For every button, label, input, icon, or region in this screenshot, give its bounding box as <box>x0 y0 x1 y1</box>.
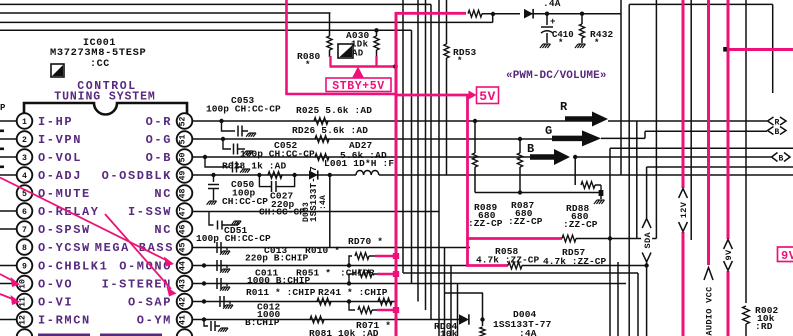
svg-text:L001 1D*H :F: L001 1D*H :F <box>324 158 394 169</box>
svg-text:R010 *: R010 * <box>305 245 340 256</box>
svg-text:O-R: O-R <box>146 115 172 129</box>
svg-text:9V: 9V <box>724 249 734 260</box>
IC pin 2 <box>17 131 33 147</box>
capacitor C012 inline <box>219 296 221 307</box>
pink vertical 683 (12V) <box>682 0 685 336</box>
svg-text:100p CH:CC-CP: 100p CH:CC-CP <box>206 104 281 115</box>
connector B <box>772 153 778 162</box>
R arrow <box>565 116 592 122</box>
svg-text:12V: 12V <box>679 201 689 218</box>
wire stub to pin 1 <box>0 120 17 122</box>
resistor R010 to pink bus <box>349 256 352 266</box>
9V callout box (cut) <box>778 247 793 262</box>
junction row43 <box>347 281 351 285</box>
svg-text:49: 49 <box>179 171 188 181</box>
IC pin 12 <box>17 312 33 328</box>
net label 12V <box>678 188 689 232</box>
wire D003 junction drop <box>329 175 331 248</box>
wire R058 right <box>522 265 647 267</box>
bus vertical d <box>425 0 427 310</box>
svg-text:AUDIO VCC: AUDIO VCC <box>705 286 715 335</box>
svg-text:O-MUTE: O-MUTE <box>38 187 91 201</box>
svg-text:*: * <box>558 38 564 48</box>
wire R to connector <box>608 120 767 122</box>
photocoupler A030 <box>338 44 353 58</box>
svg-text:O-B: O-B <box>146 151 172 165</box>
wire RD57 right <box>576 238 656 240</box>
connector B upper <box>768 127 774 135</box>
resistor R088 <box>581 182 595 189</box>
wire R087 drop <box>519 139 521 153</box>
ground C011 <box>221 266 227 269</box>
IC pin 5 <box>17 185 33 201</box>
svg-text:R: R <box>775 118 780 127</box>
diode D003 <box>309 170 318 179</box>
wire 5V row to diode <box>482 13 520 15</box>
5V callout box <box>469 91 477 100</box>
IC pin 8 <box>17 239 33 255</box>
wire stub to pin 2 <box>0 138 17 140</box>
resistor R087 <box>517 153 522 167</box>
wire from D004 up <box>482 293 484 320</box>
svg-text:10k: 10k <box>440 329 458 336</box>
svg-text:+: + <box>550 17 556 27</box>
wire stub to pin 3 <box>0 156 17 158</box>
svg-text:2: 2 <box>22 136 27 145</box>
capacitor C053 (to gnd) <box>222 121 236 131</box>
IC pin 4 <box>17 167 33 183</box>
svg-text:B: B <box>779 154 784 163</box>
right vertical 636 <box>636 121 638 239</box>
IC pin 43 <box>177 276 193 292</box>
svg-text:*: * <box>305 60 311 70</box>
pink annotation line to pin 44 <box>0 178 168 262</box>
pink row 48 to right <box>727 48 793 51</box>
pink row R058 <box>466 264 508 267</box>
svg-text:B: B <box>775 128 780 137</box>
svg-text:O-VI: O-VI <box>38 296 73 310</box>
wire bus line 4 <box>0 29 412 31</box>
wire stub to pin 4 <box>0 174 17 176</box>
svg-text:52: 52 <box>179 117 188 127</box>
pink pointer to STBY+5V <box>352 67 364 79</box>
row 273 wire <box>403 272 638 274</box>
ground after C051 <box>232 221 235 225</box>
pink main vertical bus <box>395 12 398 336</box>
svg-text:P: P <box>0 103 6 113</box>
svg-text:45: 45 <box>179 243 188 253</box>
junction on row 51 <box>221 137 225 141</box>
svg-text:8: 8 <box>22 244 27 253</box>
pink 5V drop <box>466 95 469 267</box>
wire row pin45 <box>192 247 470 249</box>
svg-text:B:CHIP: B:CHIP <box>245 317 280 328</box>
svg-text:9V: 9V <box>781 249 793 263</box>
net label 9V <box>723 239 734 271</box>
capacitor C013 inline <box>216 242 218 253</box>
svg-text::ZZ-CP: :ZZ-CP <box>508 216 543 227</box>
svg-text::CC: :CC <box>90 59 110 70</box>
ground C013 <box>221 248 227 251</box>
net label AUDIO VCC <box>703 265 714 336</box>
svg-text:I-RMCN: I-RMCN <box>38 314 91 328</box>
wire bottom R089-R087 <box>475 192 601 194</box>
resistor R025 <box>314 118 328 125</box>
bus vertical RD53 feed <box>446 0 448 44</box>
B arrow <box>530 154 554 160</box>
svg-text:4: 4 <box>22 172 27 181</box>
junction pink 48 <box>723 47 727 52</box>
resistor R002 <box>743 306 750 324</box>
svg-text:44: 44 <box>179 261 188 271</box>
svg-text:O-ADJ: O-ADJ <box>38 169 82 183</box>
bottom bus vertical 2 <box>450 266 452 336</box>
wire R088 drop <box>574 157 576 185</box>
svg-text:6: 6 <box>22 208 27 217</box>
capacitor C051 (below row) <box>209 212 214 226</box>
resistor R081 <box>310 316 324 323</box>
wire row pin51 to G arrow <box>192 138 552 140</box>
svg-text:O-VO: O-VO <box>38 278 73 292</box>
svg-text:NC: NC <box>154 223 172 237</box>
svg-text:O-SPSW: O-SPSW <box>38 223 91 237</box>
pink horizontal to 5V <box>285 93 397 96</box>
right vertical 610 <box>609 148 611 336</box>
wire bus line 1 (top) <box>0 3 431 5</box>
row 148 <box>610 147 793 149</box>
svg-text:G: G <box>545 124 552 138</box>
IC pin 52 <box>177 113 193 129</box>
svg-text::4A: :4A <box>319 195 328 210</box>
wire bus line 3 <box>0 21 493 23</box>
svg-text:7: 7 <box>22 226 27 235</box>
resistor RD27 <box>315 154 329 161</box>
right vertical 629 <box>628 4 630 336</box>
G arrow <box>552 136 582 142</box>
junction row41 <box>202 317 206 321</box>
svg-text:41: 41 <box>179 315 188 325</box>
row G jog <box>601 137 645 139</box>
svg-text:I-HP: I-HP <box>38 115 73 129</box>
junction on row 52 <box>219 119 223 123</box>
svg-text:O-OSDBLK: O-OSDBLK <box>102 169 172 183</box>
svg-text:100p CH:CC-CP: 100p CH:CC-CP <box>196 233 271 244</box>
svg-text:R: R <box>560 100 568 114</box>
right vertical 646 SDA <box>646 167 648 336</box>
svg-text:10: 10 <box>19 279 28 289</box>
resistor R051 to pink bus <box>349 274 355 284</box>
svg-text:I-SSW: I-SSW <box>128 205 172 219</box>
right vertical 638 <box>637 273 639 336</box>
svg-text:R081 10k :AD: R081 10k :AD <box>309 328 379 336</box>
right vertical 746 <box>745 0 747 303</box>
capacitor C027 (parallel R028) <box>259 175 271 187</box>
right vertical 621 <box>620 0 622 175</box>
svg-text:O-VOL: O-VOL <box>38 151 82 165</box>
svg-text:220p B:CHIP: 220p B:CHIP <box>245 253 309 264</box>
junction R432 <box>580 12 584 16</box>
diode 5V row <box>524 9 533 19</box>
wire diode to right <box>530 13 621 15</box>
pink feed from top <box>285 0 288 94</box>
svg-text:SDA: SDA <box>643 232 653 249</box>
wire row pin47 <box>192 211 439 213</box>
bus vertical c <box>417 0 419 302</box>
pink 5V wire row <box>395 12 466 15</box>
wire stub to pin 7 <box>0 228 17 230</box>
junction on pink at 395 <box>393 64 398 69</box>
junction row49 a <box>211 173 215 177</box>
svg-text:.4A: .4A <box>543 0 561 9</box>
svg-text::RD: :RD <box>755 321 773 332</box>
pink vertical 728 (9V) <box>727 0 730 336</box>
IC pin 7 <box>17 221 33 237</box>
junction row42 <box>347 299 351 303</box>
svg-text::ZZ-CP: :ZZ-CP <box>468 218 503 229</box>
svg-text:O-YCSW: O-YCSW <box>38 241 91 255</box>
svg-text:«PWM-DC/VOLUME»: «PWM-DC/VOLUME» <box>506 70 607 82</box>
svg-text:47: 47 <box>179 207 188 217</box>
junction 5v row <box>491 12 495 16</box>
junction B arrow <box>573 155 577 159</box>
junction after D004 <box>480 317 484 321</box>
IC pin 9 <box>17 258 33 274</box>
svg-text::4A: :4A <box>519 328 537 336</box>
IC pin 40 (partial) <box>177 329 193 336</box>
wire stub to pin 6 <box>0 210 17 212</box>
pink link under A030 <box>329 56 331 67</box>
wire R089 drop <box>474 121 476 153</box>
IC001 package icon <box>51 64 64 77</box>
svg-text:NC: NC <box>154 187 172 201</box>
svg-text:O-SAP: O-SAP <box>128 296 172 310</box>
svg-text:O-YM: O-YM <box>137 314 172 328</box>
svg-text:43: 43 <box>179 279 188 289</box>
capacitor row41 to gnd <box>204 320 208 327</box>
svg-text:AD: AD <box>352 49 364 59</box>
right vertical 692 <box>690 0 692 240</box>
svg-text:M37273M8-5TESP: M37273M8-5TESP <box>50 47 146 59</box>
svg-text:O-MONO: O-MONO <box>119 260 172 274</box>
junction row49 b <box>292 173 296 177</box>
IC pin 41 <box>177 312 193 328</box>
junction A030 right top <box>374 28 378 32</box>
pink vertical 708 (AUDIO VCC) <box>707 0 710 336</box>
resistor RD26 <box>315 136 329 143</box>
svg-text:12: 12 <box>19 315 28 325</box>
svg-text:42: 42 <box>179 297 188 307</box>
wire bus line 2 <box>0 12 331 14</box>
STBY+5V callout box <box>326 78 391 92</box>
capacitor C0 inline row43 <box>216 278 218 289</box>
wire row pin41 <box>192 319 460 321</box>
IC pin 50 <box>177 149 193 165</box>
IC pin 42 <box>177 294 193 310</box>
capacitor C050 (to gnd) <box>213 175 215 182</box>
svg-text:STBY+5V: STBY+5V <box>332 80 385 93</box>
IC pin 6 <box>17 203 33 219</box>
resistor R089 <box>472 153 477 167</box>
svg-text:R241 * :CHIP: R241 * :CHIP <box>318 287 388 298</box>
IC pin 47 <box>177 203 193 219</box>
svg-text:R025 5.6k :AD: R025 5.6k :AD <box>296 105 372 116</box>
capacitor C410 polarized <box>546 14 548 25</box>
IC pin 3 <box>17 149 33 165</box>
wire row pin44 <box>192 265 467 267</box>
svg-text:I-STEREN: I-STEREN <box>102 278 172 292</box>
IC pin 46 <box>177 221 193 237</box>
resistor RD53 <box>444 44 449 58</box>
svg-text:R028 1k :AD: R028 1k :AD <box>222 161 287 172</box>
IC U1 body top edge <box>24 103 187 120</box>
wire B to connector <box>575 156 771 158</box>
bus vertical b <box>411 30 413 283</box>
svg-text:100p CH:CC-CP: 100p CH:CC-CP <box>240 149 315 160</box>
bus vertical e <box>430 4 432 319</box>
net label SDA <box>641 218 652 263</box>
resistor R241 <box>378 298 392 305</box>
right vertical 656 <box>655 0 657 239</box>
IC pin 48 <box>177 185 193 201</box>
bus vertical f <box>438 0 440 336</box>
svg-text:B: B <box>527 142 534 156</box>
IC pin 49 <box>177 167 193 183</box>
svg-text:O-G: O-G <box>146 133 172 147</box>
IC pin 11 <box>17 294 33 310</box>
svg-text:4.7k :ZZ-CP: 4.7k :ZZ-CP <box>476 255 540 266</box>
bottom text sliver left <box>38 334 90 336</box>
IC pin 44 <box>177 258 193 274</box>
svg-text:CH:CC-CP: CH:CC-CP <box>222 196 268 207</box>
right vertical 618 <box>617 262 619 336</box>
svg-text:5V: 5V <box>479 89 496 104</box>
svg-text:TUNING SYSTEM: TUNING SYSTEM <box>54 91 155 104</box>
capacitor C011 inline <box>216 260 218 271</box>
svg-text:9: 9 <box>22 263 27 272</box>
pink arrow into pin 11 <box>0 294 14 300</box>
capacitor to gnd row51 <box>223 139 231 149</box>
junction on row 50 <box>203 155 207 159</box>
svg-text:3: 3 <box>22 154 27 163</box>
wire row pin49 <box>192 174 793 176</box>
IC pin 10 <box>17 276 33 292</box>
resistor R028 <box>268 172 282 179</box>
svg-text:46: 46 <box>179 225 188 235</box>
svg-text:1: 1 <box>22 118 27 127</box>
wire row pin43 <box>192 283 626 285</box>
IC pin 13 (partial) <box>17 329 33 336</box>
svg-text:I-VPN: I-VPN <box>38 133 82 147</box>
svg-text:51: 51 <box>179 135 188 145</box>
svg-text:48: 48 <box>179 189 188 199</box>
wire stub to pin 9 <box>0 265 17 267</box>
row 293 wire <box>445 292 484 294</box>
svg-text:O-CHBLK1: O-CHBLK1 <box>38 260 108 274</box>
IC pin 51 <box>177 131 193 147</box>
svg-text:1000 B:CHIP: 1000 B:CHIP <box>247 275 311 286</box>
resistor R011 <box>317 298 331 305</box>
IC pin 45 <box>177 239 193 255</box>
IC pin 1 <box>17 113 33 129</box>
svg-text:RD26 5.6k :AD: RD26 5.6k :AD <box>292 125 368 136</box>
diode D004 <box>459 314 469 324</box>
svg-text:50: 50 <box>179 153 188 163</box>
capacitor C052 (to gnd) <box>205 157 230 167</box>
resistor RD57 <box>562 235 576 242</box>
resistor R432 <box>581 14 583 24</box>
wire row pin52 to R arrow <box>192 120 565 122</box>
bottom bus vertical 3 <box>457 284 459 336</box>
wire stub to pin 10 <box>0 283 17 285</box>
pink row RD57 <box>466 237 562 240</box>
pink annotation line to pin 42 <box>105 214 171 289</box>
resistor A030 right <box>376 30 378 36</box>
svg-text:R011 * :CHIP: R011 * :CHIP <box>246 287 316 298</box>
resistor R080 (A030 left) <box>329 13 331 37</box>
bus vertical a <box>402 0 404 273</box>
svg-text:RD70 *: RD70 * <box>348 236 383 247</box>
wire row pin50 to B arrow <box>192 156 530 158</box>
bottom bus vertical 1 <box>444 248 446 336</box>
svg-text::ZZ-CP: :ZZ-CP <box>563 219 598 230</box>
svg-text:*: * <box>594 38 600 48</box>
junction row49 c <box>328 173 332 177</box>
pink arrow into pin 10 <box>0 274 14 282</box>
svg-text:*: * <box>457 56 463 66</box>
resistor R004 below <box>482 320 484 327</box>
connector R <box>768 117 774 125</box>
inductor L001 <box>356 173 379 177</box>
junction C410 <box>545 12 549 16</box>
junction row44 cap <box>202 263 206 267</box>
wire stub to pin 12 <box>0 319 17 321</box>
resistor R071 to pink bus <box>349 302 355 311</box>
wire row pin42 <box>192 301 395 303</box>
resistor R058 <box>508 262 522 269</box>
resistor inline 5V row <box>468 10 482 17</box>
